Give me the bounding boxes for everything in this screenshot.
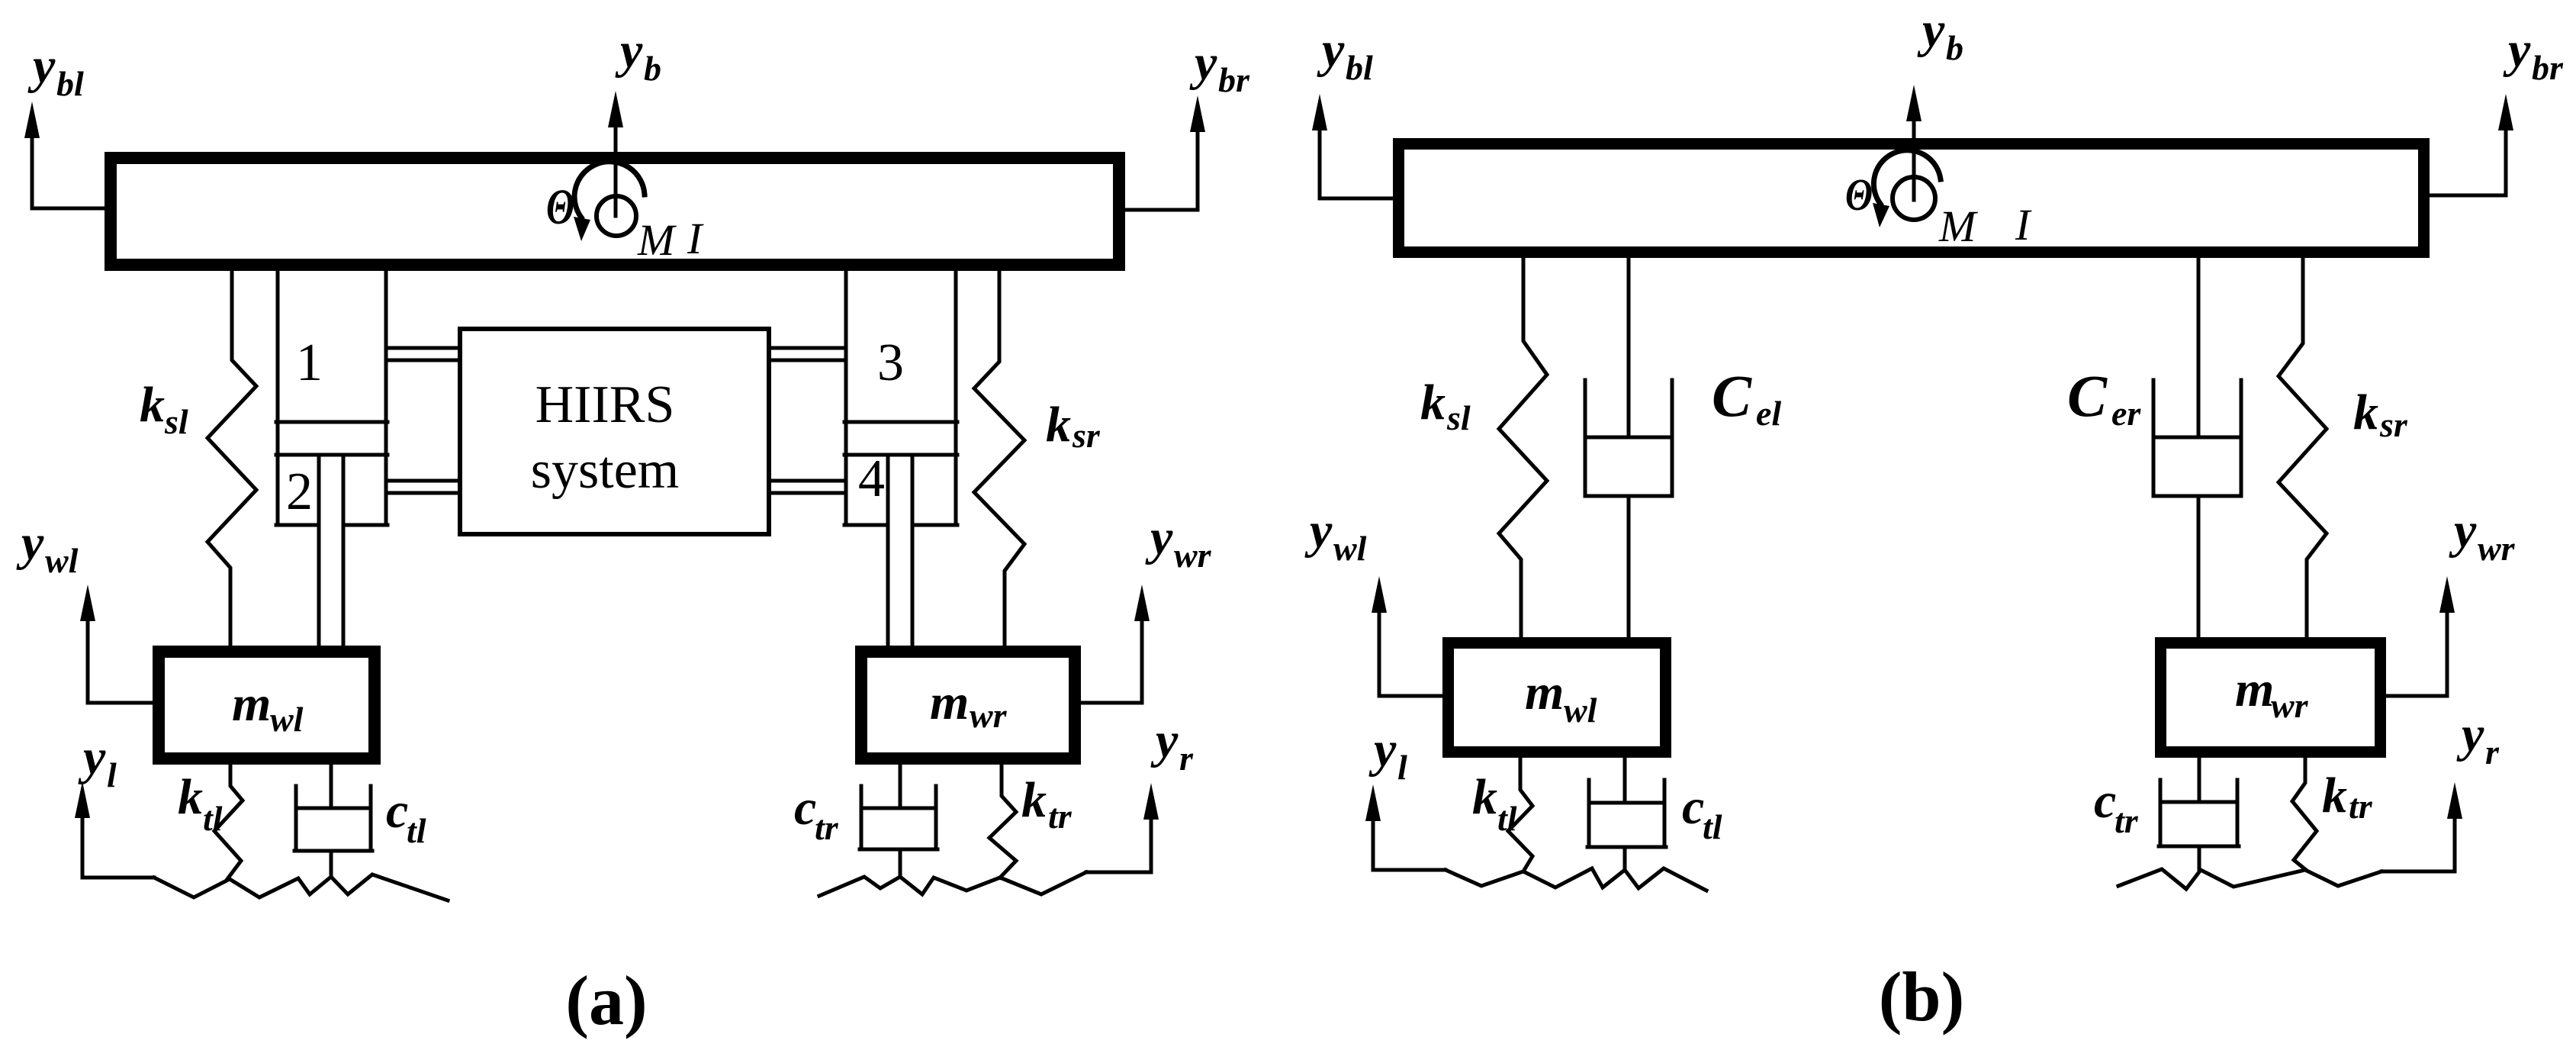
svg-text:l: l	[1397, 748, 1407, 787]
svg-text:k: k	[1046, 397, 1071, 453]
svg-text:el: el	[1756, 394, 1781, 433]
svg-text:r: r	[2485, 733, 2500, 771]
svg-text:Θ: Θ	[1845, 169, 1873, 220]
svg-text:(b): (b)	[1879, 958, 1964, 1036]
svg-text:tr: tr	[815, 808, 839, 847]
svg-text:sl: sl	[164, 402, 188, 441]
svg-text:c: c	[2094, 773, 2116, 829]
svg-text:sr: sr	[1072, 416, 1101, 455]
svg-text:bl: bl	[56, 64, 84, 103]
svg-text:l: l	[107, 755, 117, 794]
svg-text:k: k	[178, 769, 203, 825]
svg-text:sr: sr	[2379, 405, 2408, 444]
svg-text:m: m	[1525, 665, 1564, 720]
svg-text:k: k	[1021, 772, 1047, 828]
svg-text:m: m	[2235, 662, 2274, 717]
svg-text:2: 2	[286, 462, 313, 521]
svg-text:M: M	[1938, 201, 1978, 251]
svg-text:tr: tr	[2349, 787, 2373, 826]
svg-text:Θ: Θ	[546, 179, 574, 235]
svg-text:c: c	[794, 780, 816, 836]
svg-text:m: m	[232, 676, 271, 732]
svg-text:er: er	[2111, 394, 2141, 433]
svg-text:bl: bl	[1346, 48, 1373, 87]
svg-text:wl: wl	[1564, 691, 1597, 730]
svg-text:tr: tr	[2115, 801, 2139, 840]
svg-text:tr: tr	[1048, 797, 1073, 836]
svg-text:HIIRS: HIIRS	[535, 375, 675, 434]
svg-text:wr: wr	[970, 696, 1008, 735]
svg-text:wr: wr	[2271, 686, 2309, 725]
svg-text:system: system	[531, 441, 679, 500]
svg-text:br: br	[2532, 48, 2564, 87]
svg-text:b: b	[1946, 28, 1963, 67]
svg-text:tl: tl	[203, 799, 223, 838]
svg-text:I: I	[2015, 200, 2032, 250]
svg-text:c: c	[386, 783, 408, 839]
svg-text:wl: wl	[45, 541, 79, 580]
svg-text:k: k	[2353, 385, 2378, 440]
svg-text:br: br	[1218, 60, 1250, 99]
svg-text:r: r	[1179, 739, 1194, 778]
svg-text:(a): (a)	[565, 961, 647, 1039]
svg-text:I: I	[687, 214, 704, 263]
svg-text:tl: tl	[407, 811, 426, 850]
svg-text:m: m	[930, 675, 969, 730]
svg-text:wl: wl	[1333, 529, 1367, 568]
svg-text:c: c	[1682, 779, 1704, 835]
svg-text:b: b	[644, 49, 661, 88]
svg-text:4: 4	[858, 449, 885, 508]
svg-text:C: C	[1712, 362, 1752, 429]
svg-text:wr: wr	[1174, 536, 1212, 575]
svg-text:tl: tl	[1703, 807, 1722, 846]
svg-text:wr: wr	[2478, 529, 2516, 568]
svg-text:tl: tl	[1497, 799, 1517, 838]
svg-text:1: 1	[296, 333, 323, 392]
svg-text:C: C	[2067, 362, 2108, 429]
svg-text:k: k	[1420, 375, 1446, 430]
svg-text:wl: wl	[270, 700, 304, 739]
svg-text:3: 3	[877, 333, 904, 392]
svg-text:k: k	[2322, 768, 2347, 823]
svg-text:k: k	[140, 377, 165, 433]
svg-text:k: k	[1472, 769, 1497, 825]
svg-text:sl: sl	[1446, 398, 1471, 437]
svg-text:M: M	[637, 215, 677, 265]
